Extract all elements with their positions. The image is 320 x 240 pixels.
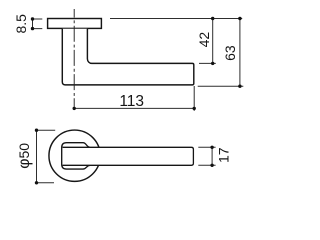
svg-text:8.5: 8.5 [13,14,29,34]
rose circle (front view) [49,130,100,181]
extension line from plate top [110,18,242,20]
svg-text:63: 63 [222,45,238,61]
dimension 17 [198,147,215,165]
centerline (handle axis, side view) [73,9,75,108]
dimension 8.5 lines [33,19,43,29]
dimension 8.5 dots [31,17,34,20]
neck flare (front view outer contour) [62,143,90,169]
dimension 63 [198,19,244,87]
svg-text:17: 17 [215,147,231,163]
dimension phi50 [37,130,56,183]
rose plate (side view) [48,19,102,29]
grip bar (front view) [63,147,194,165]
svg-text:42: 42 [196,32,212,48]
lever handle profile (side view) [62,29,194,85]
svg-text:φ50: φ50 [16,143,33,169]
dimension 113 [74,86,194,111]
svg-text:113: 113 [119,93,144,110]
dimension 42 [199,19,216,64]
